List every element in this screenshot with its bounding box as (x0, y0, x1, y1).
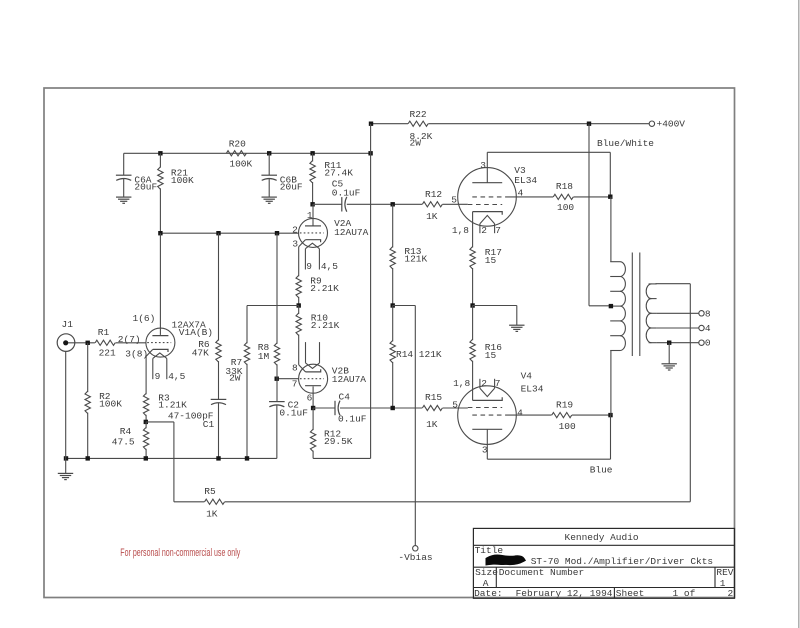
resistor R3 (143, 393, 148, 415)
svg-text:100K: 100K (99, 398, 122, 409)
svg-text:1: 1 (720, 578, 726, 589)
svg-text:15: 15 (485, 255, 497, 266)
node junction R22 left corner (369, 122, 373, 126)
svg-text:15: 15 (485, 350, 497, 361)
svg-text:Sheet: Sheet (616, 588, 645, 599)
node junction gnd R4 (144, 456, 148, 460)
svg-text:5: 5 (452, 400, 458, 411)
wire R5 left (174, 501, 205, 503)
terminal -Vbias (413, 546, 418, 551)
svg-text:2: 2 (481, 225, 487, 236)
svg-text:R12: R12 (425, 189, 442, 200)
svg-text:3: 3 (292, 239, 298, 250)
svg-text:4,5: 4,5 (321, 261, 338, 272)
svg-text:27.4K: 27.4K (324, 167, 353, 178)
ground under C6B (262, 196, 277, 198)
title block divider date/sheet (613, 588, 615, 599)
svg-text:1K: 1K (206, 509, 218, 520)
wire R18 to junction (573, 196, 610, 198)
svg-text:3(8): 3(8) (125, 348, 148, 359)
wire J1 ground lead (65, 351, 67, 458)
svg-text:7: 7 (292, 378, 298, 389)
svg-text:9: 9 (306, 261, 312, 272)
wire R5 right (225, 501, 691, 503)
svg-text:100K: 100K (171, 175, 194, 186)
node junction R21 top (158, 151, 162, 155)
wire 0 tap ground lead (668, 343, 670, 364)
svg-text:1 of: 1 of (673, 588, 696, 599)
svg-text:4: 4 (705, 323, 711, 334)
title block divider size/doc (495, 567, 497, 587)
node junction R9/R10 (297, 303, 301, 307)
svg-text:R22: R22 (410, 109, 427, 120)
resistor R13 (392, 204, 394, 247)
svg-text:100: 100 (557, 202, 574, 213)
svg-text:8: 8 (705, 308, 711, 319)
resistor R10 (298, 306, 300, 315)
svg-text:C4: C4 (339, 392, 351, 403)
resistor R22 (408, 121, 428, 126)
tube V2B 12AU7A (299, 364, 328, 393)
node junction center tap (609, 304, 613, 308)
svg-text:1K: 1K (426, 211, 438, 222)
wire cathode ground (473, 305, 517, 307)
terminal 8 ohm (699, 311, 704, 316)
svg-text:1(6): 1(6) (133, 313, 156, 324)
resistor R18 (553, 194, 573, 199)
svg-text:1M: 1M (258, 351, 270, 362)
resistor R1 (95, 340, 115, 345)
svg-text:5: 5 (451, 195, 457, 206)
svg-text:February 12, 1994: February 12, 1994 (516, 588, 613, 599)
svg-text:6: 6 (307, 392, 313, 403)
svg-text:2.21K: 2.21K (310, 283, 339, 294)
wire primary top lead (610, 197, 612, 262)
wire C5 to V3 pin5 (347, 203, 422, 205)
svg-text:R19: R19 (556, 400, 573, 411)
wire V1 cathode lead (145, 356, 147, 394)
svg-text:R18: R18 (556, 181, 573, 192)
resistor R6 (218, 233, 220, 340)
tube V1 12AX7A (146, 328, 175, 357)
resistor R17 (470, 247, 475, 269)
node junction R6 top (216, 231, 220, 235)
svg-text:2.21K: 2.21K (311, 320, 340, 331)
node junction R14 bottom (391, 406, 395, 410)
resistor R7 top wire (246, 306, 248, 344)
svg-text:1: 1 (307, 210, 313, 221)
title block line under size row (473, 587, 734, 589)
svg-text:1K: 1K (426, 419, 438, 430)
ground secondary (662, 363, 677, 365)
ground under C6A (116, 196, 131, 198)
wire plate to C4 (313, 407, 335, 409)
svg-text:100: 100 (559, 421, 576, 432)
svg-text:EL34: EL34 (521, 384, 544, 395)
svg-text:Kennedy Audio: Kennedy Audio (565, 532, 639, 543)
svg-text:R5: R5 (204, 486, 216, 497)
wire V3 pin4 to R18 (506, 196, 553, 198)
svg-text:121K: 121K (404, 254, 427, 265)
resistor R2 (87, 343, 89, 392)
tube V4 EL34 (458, 386, 517, 445)
terminal 0 ohm (699, 340, 704, 345)
svg-text:9: 9 (155, 371, 161, 382)
tube V2A 12AU7A (299, 218, 328, 247)
wire V2B plate lead (312, 386, 314, 408)
svg-text:R4: R4 (120, 426, 132, 437)
svg-text:J1: J1 (62, 319, 74, 330)
schematic border frame (44, 88, 735, 598)
resistor R14 (392, 306, 394, 342)
node junction R11 top (310, 151, 314, 155)
svg-text:2(7): 2(7) (118, 334, 141, 345)
node junction R13 top (391, 202, 395, 206)
wire +400V rail (371, 123, 408, 125)
svg-text:Blue: Blue (590, 465, 613, 476)
resistor R12 29.5K (312, 408, 314, 430)
svg-text:R1: R1 (98, 327, 110, 338)
ground main (58, 472, 73, 474)
svg-text:Blue/White: Blue/White (597, 138, 654, 149)
svg-text:2: 2 (481, 378, 487, 389)
node junction gnd R2 (86, 456, 90, 460)
svg-text:47.5: 47.5 (112, 436, 135, 447)
node junction cathode ground (470, 303, 474, 307)
wire secondary 4 tap (657, 327, 699, 329)
wire secondary 8 tap (657, 312, 699, 314)
resistor R9 (296, 275, 301, 297)
svg-text:100K: 100K (229, 159, 252, 170)
wire V3 pin3 loop (486, 152, 488, 182)
resistor R11 (312, 153, 314, 161)
node junction V2A plate (310, 202, 314, 206)
svg-text:12AU7A: 12AU7A (334, 227, 369, 238)
resistor R15 (422, 405, 442, 410)
terminal +400V (649, 121, 654, 126)
svg-text:ST-70 Mod./Amplifier/Driver Ck: ST-70 Mod./Amplifier/Driver Ckts (531, 556, 713, 567)
title block line under company (473, 544, 734, 546)
svg-text:EL34: EL34 (514, 175, 537, 186)
node junction blue-white tap (587, 122, 591, 126)
wire secondary 0 tap (657, 342, 699, 344)
svg-text:1,8: 1,8 (452, 225, 469, 236)
node junction 0 tap ground (667, 341, 671, 345)
svg-text:C1: C1 (203, 419, 215, 430)
node junction R18 right (608, 195, 612, 199)
resistor R8 (276, 233, 278, 344)
svg-text:2W: 2W (229, 373, 241, 384)
wire V3 cathode lead (472, 212, 474, 248)
svg-text:V1A(B): V1A(B) (179, 327, 213, 338)
title block divider doc/rev (714, 567, 716, 587)
svg-text:4,5: 4,5 (168, 371, 185, 382)
wire V4 pin4 to R19 (506, 414, 552, 416)
transformer primary winding (610, 261, 620, 263)
svg-text:0.1uF: 0.1uF (279, 407, 308, 418)
capacitor C6A (123, 153, 125, 175)
transformer secondary winding (649, 283, 657, 285)
tube V3 EL34 (458, 168, 517, 227)
node junction C6B top (267, 151, 271, 155)
wire feedback tap (146, 421, 174, 423)
svg-text:-Vbias: -Vbias (398, 552, 432, 563)
node junction gnd J1 (64, 456, 68, 460)
wire J1 to R1 (68, 342, 95, 344)
node junction R8 top (275, 231, 279, 235)
redacted scribble (488, 557, 523, 563)
wire B+ rail y153 (124, 152, 371, 154)
node junction R3/R4 (144, 420, 148, 424)
resistor R7 (244, 342, 249, 364)
wire V2A cathode lead (298, 247, 300, 277)
svg-text:0: 0 (705, 338, 711, 349)
capacitor C4 (334, 401, 336, 415)
terminal 4 ohm (699, 325, 704, 330)
svg-text:7: 7 (495, 378, 501, 389)
svg-text:Document Number: Document Number (499, 567, 585, 578)
connector J1 (57, 334, 75, 352)
wire primary bottom lead (610, 351, 612, 416)
resistor R19 (552, 413, 572, 418)
wire V4 pin3 loop (486, 429, 488, 459)
title block line under title row (473, 566, 734, 568)
capacitor C1 (211, 398, 227, 400)
svg-text:1,8: 1,8 (453, 378, 470, 389)
wire Blue/White drop (588, 124, 590, 306)
wire C4 to V4 pin5 (340, 407, 422, 409)
svg-text:12AU7A: 12AU7A (332, 374, 367, 385)
svg-text:47K: 47K (192, 347, 209, 358)
wire ground rail (66, 457, 277, 459)
capacitor C2 (269, 401, 285, 403)
svg-text:20uF: 20uF (134, 182, 157, 193)
svg-text:4: 4 (517, 408, 523, 419)
wire R19 to junction (572, 414, 611, 416)
resistor R5 (205, 499, 225, 504)
node junction R13/R14 (391, 303, 395, 307)
browser right edge line (798, 0, 800, 628)
svg-text:20uF: 20uF (280, 182, 303, 193)
wire R12 bottom rail (313, 457, 371, 459)
svg-text:2W: 2W (410, 138, 422, 149)
svg-text:2: 2 (728, 588, 734, 599)
svg-text:3: 3 (480, 160, 486, 171)
svg-text:R14 121K: R14 121K (396, 349, 442, 360)
wire R7 to R9R10 node (247, 305, 299, 307)
svg-text:R15: R15 (425, 392, 442, 403)
resistor R4 (145, 422, 147, 428)
resistor R21 (159, 153, 161, 167)
svg-text:0.1uF: 0.1uF (338, 414, 367, 425)
node junction B+ rail right end (368, 151, 372, 155)
svg-text:Date:: Date: (474, 588, 503, 599)
capacitor C5 (341, 197, 343, 211)
svg-text:+400V: +400V (657, 119, 686, 130)
wire V2B grid to R8 (277, 378, 299, 380)
node junction gnd R7 (245, 456, 249, 460)
svg-text:REV: REV (716, 567, 733, 578)
title block outer box (473, 528, 734, 598)
ground V3/V4 cathode (509, 324, 524, 326)
wire grid rail y233 (160, 232, 298, 234)
svg-text:For personal non-commercial us: For personal non-commercial use only (120, 547, 240, 559)
resistor R16 (472, 306, 474, 341)
svg-text:R20: R20 (229, 138, 246, 149)
wire R1 to V1 grid (115, 342, 145, 344)
transformer core (631, 253, 633, 357)
node junction R19 right (608, 413, 612, 417)
svg-text:Size: Size (475, 567, 498, 578)
wire V1 plate vertical (159, 233, 161, 335)
node junction V2B plate (311, 406, 315, 410)
resistor R20 (226, 151, 246, 156)
svg-text:V4: V4 (521, 370, 533, 381)
svg-text:0.1uF: 0.1uF (332, 187, 361, 198)
wire long B+ vertical x370 (370, 124, 372, 459)
svg-text:29.5K: 29.5K (324, 436, 353, 447)
node junction V1 plate rail (158, 231, 162, 235)
node junction gnd C1 (216, 456, 220, 460)
node junction R2 top (86, 341, 90, 345)
node junction R8 grid (275, 377, 279, 381)
svg-text:221: 221 (99, 348, 116, 359)
capacitor C6B (268, 153, 270, 175)
resistor R12 1K driver (422, 202, 442, 207)
svg-text:2: 2 (292, 225, 298, 236)
svg-text:7: 7 (495, 225, 501, 236)
wire V2A plate to C5 (313, 203, 342, 205)
svg-text:8: 8 (292, 363, 298, 374)
svg-text:1.21K: 1.21K (158, 400, 187, 411)
wire -Vbias tap (393, 305, 416, 307)
